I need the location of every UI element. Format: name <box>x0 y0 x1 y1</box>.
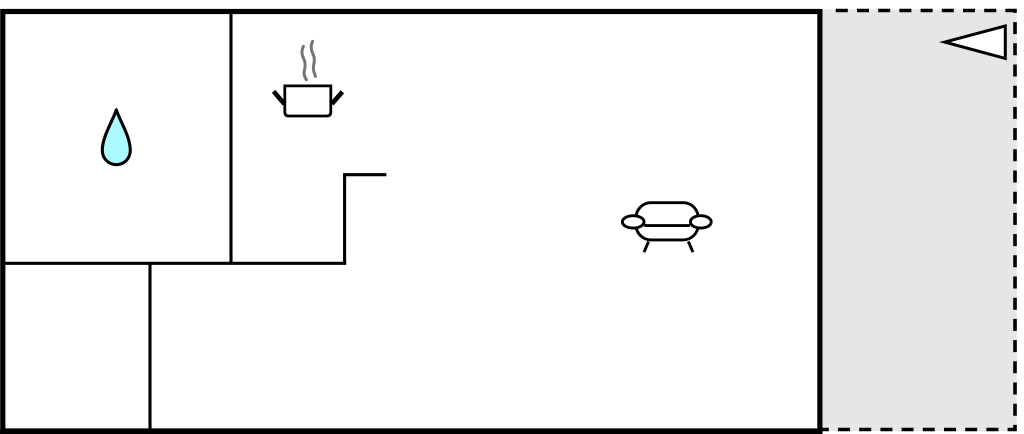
terrace dashed border <box>821 11 1015 430</box>
wall: bathroom/kitchen divider (vertical) <box>229 12 232 264</box>
icon: sofa left leg <box>644 242 649 253</box>
wall: horizontal divider <box>2 262 346 265</box>
icon: sofa right armrest <box>690 216 711 228</box>
main unit outer wall <box>3 12 820 432</box>
icon: cooking pot body <box>285 86 331 116</box>
icon: direction triangle (terrace) <box>945 26 1006 59</box>
icon: steam line right <box>311 41 315 76</box>
terrace area (gray) <box>819 10 1017 432</box>
icon: water drop (bathroom) <box>102 110 130 165</box>
main unit bottom wall thickening <box>0 430 823 434</box>
icon: sofa right leg <box>688 242 693 253</box>
icon: sofa left armrest <box>622 216 644 228</box>
wall: bottom-left room divider (vertical) <box>148 263 151 433</box>
icon: sofa seat line <box>644 224 690 227</box>
wall: kitchen step (L-shape) <box>345 175 387 264</box>
icon: steam line left <box>302 46 306 79</box>
icon: pot right handle <box>332 92 343 104</box>
icon: sofa body <box>636 203 698 240</box>
icon: pot left handle <box>274 91 285 104</box>
